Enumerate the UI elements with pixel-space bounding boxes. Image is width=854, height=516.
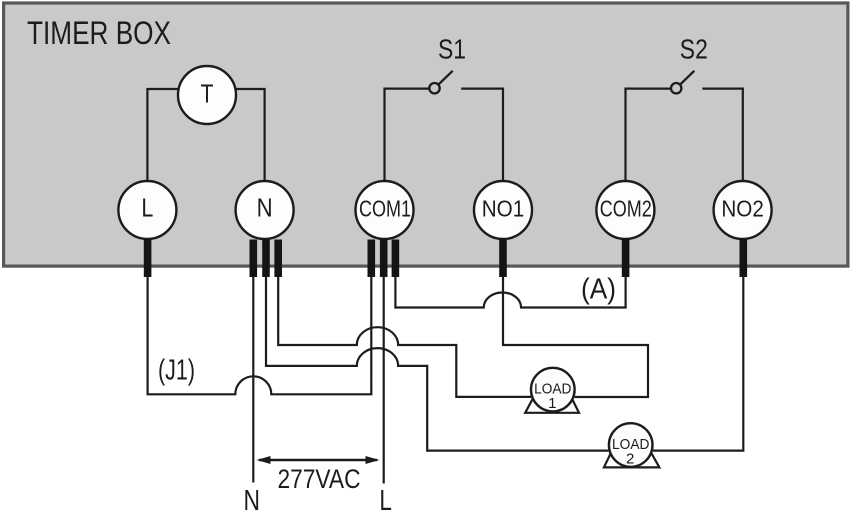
supply wire L (COM1 pin2 down) — [383, 276, 385, 484]
switch S1 lever — [438, 71, 452, 85]
jumper wire (A) COM1 pin3 to COM2, hops over NO1 wire — [395, 276, 625, 308]
svg-text:NO1: NO1 — [482, 195, 525, 221]
switch S2 left wire from COM2 — [626, 89, 672, 181]
svg-text:COM1: COM1 — [359, 195, 411, 221]
svg-text:(J1): (J1) — [158, 355, 195, 387]
svg-text:NO2: NO2 — [721, 195, 764, 221]
LOAD 1 pedestal — [525, 396, 579, 412]
terminal stub N pin3 — [274, 240, 282, 278]
svg-text:(A): (A) — [581, 273, 616, 305]
svg-text:S1: S1 — [438, 34, 466, 65]
switch S2 right wire to NO2 — [702, 89, 742, 181]
wire timer T to N (right) — [235, 89, 264, 181]
LOAD 2 pedestal — [604, 451, 660, 468]
terminal stub COM1 pin1 — [367, 240, 375, 278]
terminal NO2 — [714, 181, 772, 239]
terminal stub L — [144, 239, 152, 277]
terminal stub NO2 — [739, 239, 747, 277]
terminal stub COM1 pin2 — [380, 239, 388, 277]
svg-text:N: N — [257, 194, 273, 222]
svg-text:T: T — [201, 81, 214, 109]
svg-text:1: 1 — [548, 395, 556, 412]
svg-text:277VAC: 277VAC — [278, 464, 361, 494]
terminal stub N pin1 — [250, 240, 258, 278]
terminal NO1 — [474, 181, 532, 239]
supply wire N (N pin1 down) — [252, 276, 254, 483]
terminal stub N pin2 — [262, 239, 270, 277]
wire NO2 to LOAD 2 right — [653, 276, 743, 451]
svg-text:2: 2 — [626, 450, 634, 467]
terminal L — [118, 181, 176, 239]
timer box enclosure — [4, 3, 848, 266]
terminal stub COM1 pin3 — [392, 240, 400, 278]
timer T — [178, 66, 236, 124]
wire L to timer T (left) — [147, 89, 178, 181]
277VAC dimension arrow — [259, 459, 377, 461]
LOAD 2 — [609, 423, 653, 467]
terminal COM2 — [596, 181, 654, 239]
terminal stub COM2 — [622, 239, 630, 277]
switch S1 left wire from COM1 — [385, 89, 430, 181]
jumper wire (J1) from L to COM1 pin1, hops over N supply wire — [148, 276, 372, 394]
wire N pin3 to LOAD 1 left, hops over COM1 wires — [278, 276, 531, 397]
svg-text:L: L — [379, 485, 392, 516]
terminal N — [236, 181, 294, 239]
wire N pin2 to LOAD 2 left, hops over COM1 wires — [266, 276, 608, 451]
wire NO1 to LOAD 1 right — [503, 276, 648, 397]
switch S1 right wire to NO1 — [461, 89, 503, 181]
svg-text:S2: S2 — [680, 34, 708, 65]
switch S1 pivot contact — [429, 83, 439, 93]
terminal COM1 — [356, 181, 414, 239]
svg-text:TIMER BOX: TIMER BOX — [27, 15, 171, 51]
switch S2 lever — [680, 71, 694, 85]
svg-text:COM2: COM2 — [600, 195, 652, 221]
svg-text:L: L — [141, 194, 153, 222]
terminal stub NO1 — [499, 239, 507, 277]
switch S2 pivot contact — [671, 83, 681, 93]
LOAD 1 — [531, 368, 575, 412]
svg-text:N: N — [244, 485, 261, 516]
